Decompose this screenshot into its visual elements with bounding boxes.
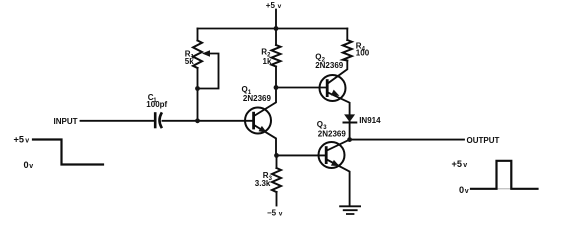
svg-text:+5: +5 xyxy=(266,1,276,10)
svg-text:Q: Q xyxy=(242,85,248,94)
svg-text:v: v xyxy=(278,3,282,10)
svg-text:v: v xyxy=(279,210,283,217)
svg-text:+5: +5 xyxy=(14,135,24,145)
svg-text:OUTPUT: OUTPUT xyxy=(467,136,500,145)
svg-text:Q: Q xyxy=(317,120,323,129)
svg-text:2N2369: 2N2369 xyxy=(243,94,272,103)
svg-text:v: v xyxy=(465,188,469,195)
svg-text:2N2369: 2N2369 xyxy=(315,61,344,70)
svg-text:100: 100 xyxy=(356,49,370,58)
svg-text:v: v xyxy=(25,138,29,145)
svg-text:+5: +5 xyxy=(452,159,462,169)
svg-text:1k: 1k xyxy=(263,57,272,66)
svg-text:INPUT: INPUT xyxy=(54,117,78,126)
svg-text:v: v xyxy=(463,162,467,169)
svg-text:5k: 5k xyxy=(185,57,194,66)
svg-text:IN914: IN914 xyxy=(359,116,381,125)
svg-text:v: v xyxy=(29,163,33,170)
svg-text:0: 0 xyxy=(459,185,464,195)
svg-text:100pf: 100pf xyxy=(146,100,167,109)
svg-text:2N2369: 2N2369 xyxy=(318,130,347,139)
svg-text:0: 0 xyxy=(24,160,29,170)
svg-text:Q: Q xyxy=(315,52,321,61)
svg-text:−5: −5 xyxy=(267,208,277,217)
svg-text:3.3k: 3.3k xyxy=(255,179,271,188)
